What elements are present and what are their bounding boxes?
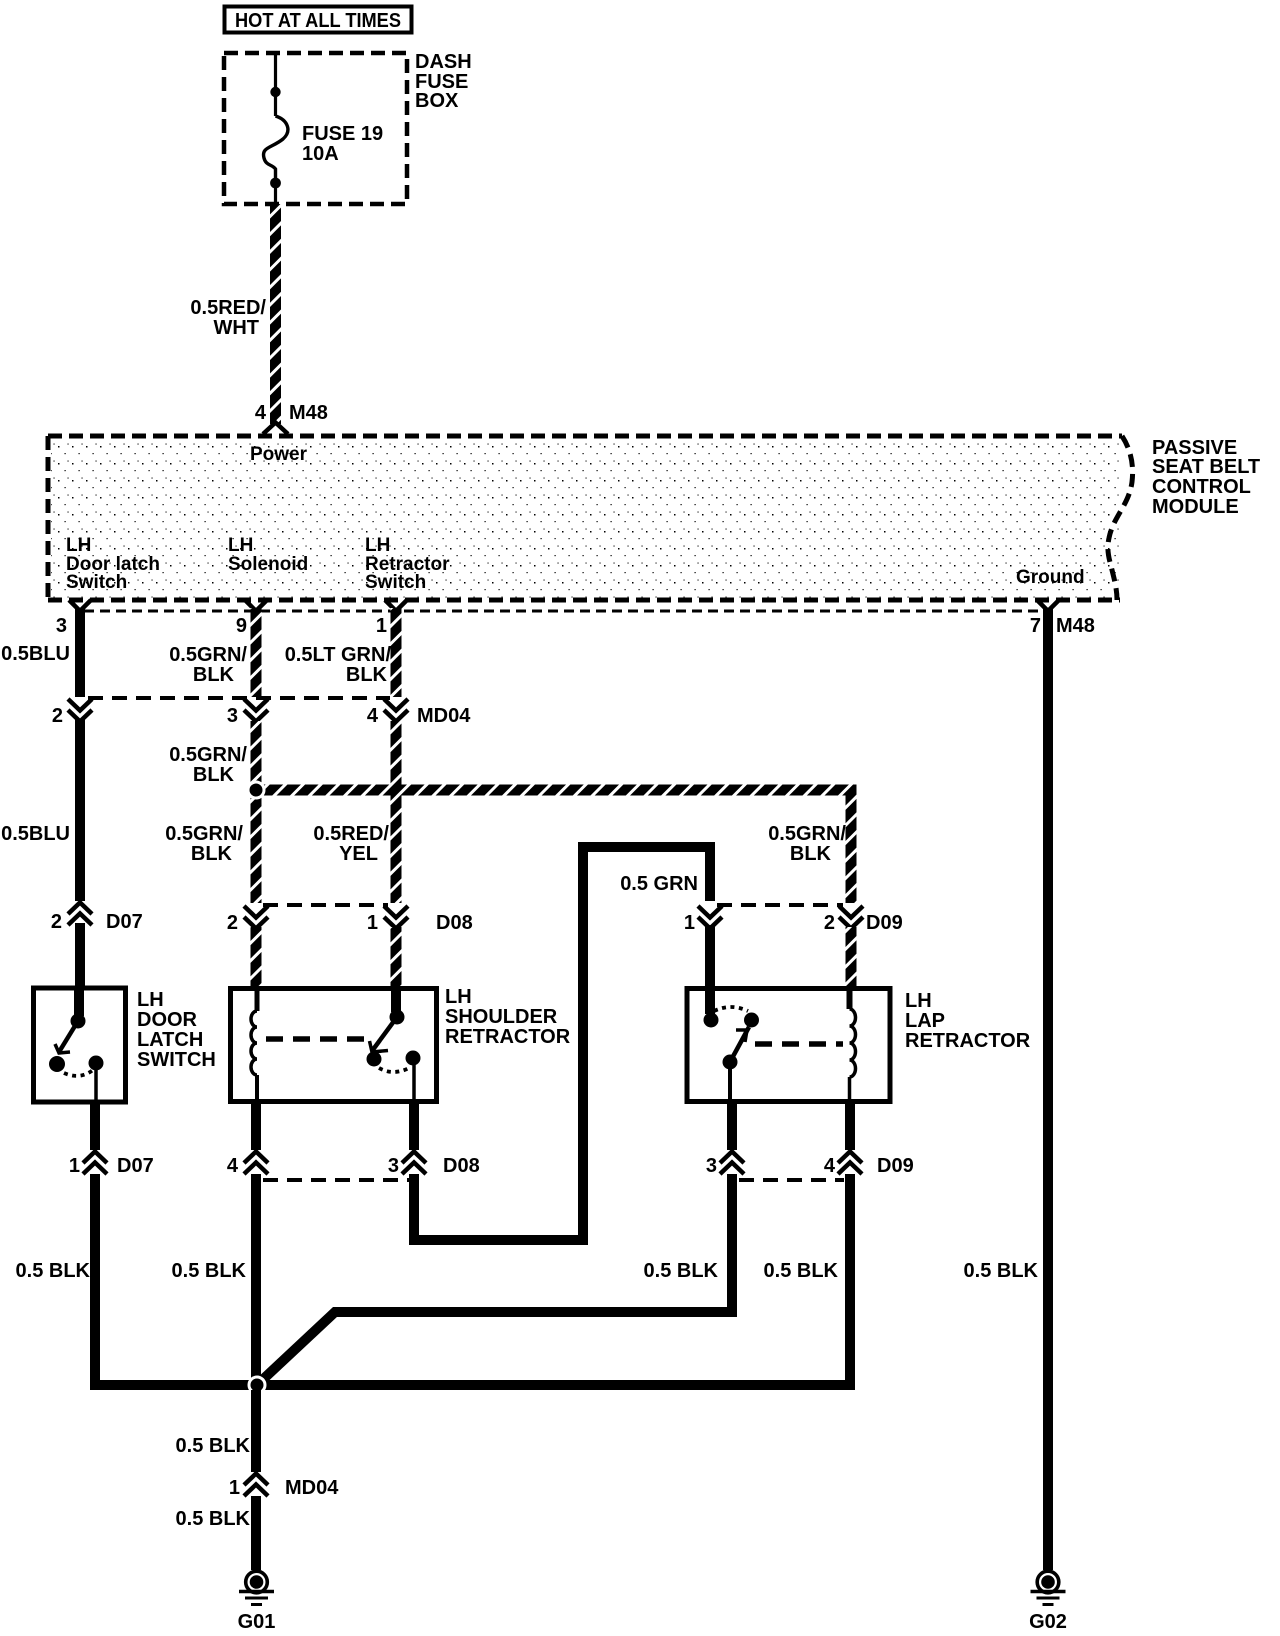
module pin name LH Retractor Switch [365, 535, 450, 593]
svg-text:LH: LH [228, 535, 253, 556]
svg-text:1: 1 [684, 912, 695, 934]
svg-text:MODULE: MODULE [1152, 496, 1239, 518]
module pin name LH Solenoid [228, 535, 308, 575]
svg-text:BLK: BLK [193, 664, 235, 686]
svg-text:M48: M48 [289, 402, 328, 424]
svg-text:LH: LH [905, 990, 932, 1012]
wire label 0.5GRN/BLK [169, 644, 247, 686]
svg-text:2: 2 [51, 911, 62, 933]
svg-text:D08: D08 [443, 1155, 480, 1177]
svg-text:9: 9 [236, 615, 247, 637]
svg-text:SHOULDER: SHOULDER [445, 1006, 558, 1028]
wire label 0.5GRN/BLK (right branch) [768, 823, 846, 865]
HOT AT ALL TIMES banner [225, 7, 412, 33]
svg-text:0.5LT GRN/: 0.5LT GRN/ [285, 644, 392, 666]
connector chevron module pin 1 [385, 600, 407, 611]
node dot below fuse [270, 178, 281, 189]
svg-text:4: 4 [367, 705, 379, 727]
connector chevron module pin 3 [69, 600, 91, 611]
connector D08 pin 3 chevrons (up) [402, 1152, 426, 1175]
wire 0.5 BLK MD04 to G01 [251, 1496, 261, 1570]
svg-text:0.5BLU: 0.5BLU [1, 643, 70, 665]
svg-text:Power: Power [250, 444, 308, 465]
connector D08 dashed line (lower) [263, 1178, 409, 1182]
ground G01 [239, 1571, 274, 1604]
svg-text:LATCH: LATCH [137, 1029, 203, 1051]
wire label 0.5RED/YEL [313, 823, 389, 865]
wire 0.5GRN/BLK D08 to shoulder retractor (hatched) [251, 927, 262, 987]
connector D07 pin 2 chevrons (up) [68, 903, 92, 926]
svg-text:0.5 GRN: 0.5 GRN [620, 873, 698, 895]
connector D07 pin 1 chevrons (up) [83, 1152, 107, 1175]
svg-text:D09: D09 [866, 912, 903, 934]
svg-text:SWITCH: SWITCH [137, 1049, 216, 1071]
svg-text:CONTROL: CONTROL [1152, 476, 1251, 498]
svg-text:DASH: DASH [415, 51, 472, 73]
wire 0.5BLU connector to D07 [75, 719, 85, 901]
svg-text:D09: D09 [877, 1155, 914, 1177]
svg-text:HOT AT ALL TIMES: HOT AT ALL TIMES [235, 10, 401, 32]
connector D08 pin 4 chevrons (up) [244, 1152, 268, 1175]
dash fuse box (dashed outline) [224, 53, 407, 204]
wire 0.5RED/YEL connector to D08 (hatched) [391, 721, 402, 903]
module PASSIVE SEAT BELT CONTROL MODULE (dashed box with wavy right edge) [48, 436, 1133, 600]
wire 0.5BLU module pin3 to connector [75, 608, 85, 697]
svg-text:MD04: MD04 [417, 705, 471, 727]
svg-text:Solenoid: Solenoid [228, 554, 308, 575]
value label FUSE 19 10A [302, 123, 383, 165]
connector D09 dashed line (lower) [739, 1178, 844, 1182]
module name label [1152, 437, 1260, 518]
svg-text:D07: D07 [106, 911, 143, 933]
svg-text:SEAT BELT: SEAT BELT [1152, 456, 1260, 478]
shoulder retractor label [445, 986, 571, 1048]
svg-text:3: 3 [388, 1155, 399, 1177]
connector D08 pin 2 chevrons [244, 906, 268, 929]
connector MD04 pin 1 chevrons (up) [244, 1474, 268, 1497]
wire 0.5 GRN shoulder to lap (S route) [414, 847, 710, 1240]
svg-text:M48: M48 [1056, 615, 1095, 637]
LH LAP RETRACTOR box [687, 989, 890, 1102]
connector chevron pin 4 M48 [263, 423, 288, 435]
wire 0.5GRN/BLK connector to D08 (hatched) [251, 721, 262, 903]
wire 0.5 BLK D09 pin3 to junction (with diagonal) [258, 1174, 732, 1384]
door latch switch label [137, 989, 216, 1071]
svg-text:BLK: BLK [346, 664, 388, 686]
shoulder retractor switch [367, 989, 421, 1100]
svg-text:BLK: BLK [193, 764, 235, 786]
connector D09 pin 1 chevrons [698, 906, 722, 929]
ground G02 [1031, 1571, 1066, 1604]
wire label 0.5GRN/BLK (lower) [165, 823, 243, 865]
svg-text:0.5 BLK: 0.5 BLK [16, 1260, 91, 1282]
wire label 0.5RED/WHT [190, 297, 266, 339]
svg-text:0.5RED/: 0.5RED/ [190, 297, 266, 319]
wire 0.5 BLK junction to MD04 [251, 1390, 261, 1472]
svg-text:4: 4 [255, 402, 267, 424]
svg-text:LH: LH [137, 989, 164, 1011]
svg-text:1: 1 [229, 1477, 240, 1499]
wire fuse feed (thin) [274, 53, 277, 116]
LH SHOULDER RETRACTOR box [231, 989, 437, 1102]
connector MD04 dashed line (row) [88, 696, 390, 700]
svg-text:4: 4 [824, 1155, 836, 1177]
svg-text:LH: LH [445, 986, 472, 1008]
svg-text:RETRACTOR: RETRACTOR [445, 1026, 571, 1048]
connector D08 pin 1 chevrons [384, 906, 408, 929]
node dot above fuse [270, 87, 280, 97]
wire 0.5 BLK ground bus (D07 + bus + D09 pin4) [95, 1174, 850, 1385]
svg-text:0.5RED/: 0.5RED/ [313, 823, 389, 845]
svg-text:1: 1 [376, 615, 387, 637]
svg-text:0.5 BLK: 0.5 BLK [764, 1260, 839, 1282]
lap retractor coil [850, 990, 856, 1100]
connector D08 dashed line (upper) [263, 903, 388, 907]
connector chevron module pin 9 [245, 600, 267, 611]
svg-text:1: 1 [367, 912, 378, 934]
connector MD04 pin 3 chevrons [244, 699, 268, 722]
svg-text:3: 3 [227, 705, 238, 727]
svg-text:MD04: MD04 [285, 1477, 339, 1499]
shoulder retractor internal dashed link [266, 1036, 364, 1042]
wire shoulder retractor to D08 pin4 [251, 1103, 261, 1150]
svg-text:D07: D07 [117, 1155, 154, 1177]
svg-text:0.5 BLK: 0.5 BLK [644, 1260, 719, 1282]
svg-text:RETRACTOR: RETRACTOR [905, 1030, 1031, 1052]
wire 0.5 BLK D08 pin4 to junction [251, 1174, 261, 1385]
svg-text:7: 7 [1030, 615, 1041, 637]
lap retractor switch [704, 990, 760, 1100]
door latch switch internals [49, 989, 104, 1100]
svg-text:0.5 BLK: 0.5 BLK [176, 1508, 251, 1530]
svg-text:LH: LH [365, 535, 390, 556]
svg-text:WHT: WHT [213, 317, 259, 339]
wire lap retractor to D09 pin4 [845, 1103, 855, 1150]
connector D09 dashed line (upper) [717, 903, 843, 907]
wire 0.5RED/WHT (hatched) fuse box to module [270, 204, 281, 424]
svg-text:Ground: Ground [1016, 567, 1085, 588]
wire shoulder retractor to D08 pin3 [409, 1103, 419, 1150]
junction node on 0.5GRN/BLK [248, 782, 264, 798]
junction node on ground bus [249, 1377, 265, 1393]
svg-text:1: 1 [69, 1155, 80, 1177]
fuse FUSE 19 10A [263, 116, 287, 178]
svg-text:0.5 BLK: 0.5 BLK [172, 1260, 247, 1282]
wire 0.5GRN/BLK module pin9 to connector (hatched) [251, 608, 262, 697]
connector M48 dashed line (bottom) [84, 610, 1042, 613]
svg-text:LAP: LAP [905, 1010, 945, 1032]
svg-text:3: 3 [56, 615, 67, 637]
svg-text:BLK: BLK [191, 843, 233, 865]
svg-text:BOX: BOX [415, 90, 459, 112]
lap retractor internal dashed link [755, 1041, 843, 1047]
svg-text:LH: LH [66, 535, 91, 556]
connector MD04 pin 2 chevrons [68, 699, 92, 722]
svg-text:0.5 BLK: 0.5 BLK [964, 1260, 1039, 1282]
svg-text:0.5GRN/: 0.5GRN/ [169, 644, 247, 666]
connector D09 pin 2 chevrons [839, 906, 863, 929]
svg-text:2: 2 [52, 705, 63, 727]
svg-text:0.5GRN/: 0.5GRN/ [165, 823, 243, 845]
wire 0.5GRN/BLK D09 to lap retractor coil (hatched) [846, 927, 857, 988]
svg-text:4: 4 [227, 1155, 239, 1177]
connector MD04 pin 4 chevrons [384, 699, 408, 722]
wire lap retractor to D09 pin3 [727, 1103, 737, 1150]
svg-text:Switch: Switch [66, 572, 127, 593]
svg-text:BLK: BLK [790, 843, 832, 865]
svg-text:G01: G01 [238, 1611, 276, 1633]
svg-text:2: 2 [227, 912, 238, 934]
svg-text:0.5BLU: 0.5BLU [1, 823, 70, 845]
connector D09 pin 3 chevrons (up) [720, 1152, 744, 1175]
connector D09 pin 4 chevrons (up) [838, 1152, 862, 1175]
svg-text:3: 3 [706, 1155, 717, 1177]
wire label 0.5LT GRN/BLK [285, 644, 392, 686]
label DASH FUSE BOX [415, 51, 472, 112]
svg-text:YEL: YEL [339, 843, 378, 865]
svg-text:0.5 BLK: 0.5 BLK [176, 1435, 251, 1457]
module pin name LH Door latch Switch [66, 535, 160, 593]
svg-text:G02: G02 [1029, 1611, 1067, 1633]
svg-text:10A: 10A [302, 143, 339, 165]
svg-text:FUSE 19: FUSE 19 [302, 123, 383, 145]
wire 0.5 BLK module pin7 to G02 [1043, 608, 1053, 1570]
svg-text:Switch: Switch [365, 572, 426, 593]
wire 0.5RED/YEL D08 to shoulder retractor (hatched) [391, 927, 402, 987]
connector chevron module pin 7 [1037, 600, 1059, 611]
svg-text:D08: D08 [436, 912, 473, 934]
svg-text:0.5GRN/: 0.5GRN/ [169, 744, 247, 766]
svg-text:2: 2 [824, 912, 835, 934]
LH DOOR LATCH SWITCH box [34, 988, 126, 1102]
wire 0.5LT GRN/BLK module pin1 to connector (hatched) [391, 608, 402, 697]
wire fuse to box edge (thin) [274, 183, 277, 204]
svg-text:DOOR: DOOR [137, 1009, 198, 1031]
wire 0.5BLU D07 to door latch switch [75, 923, 85, 987]
svg-text:0.5GRN/: 0.5GRN/ [768, 823, 846, 845]
shoulder retractor solenoid coil [251, 989, 257, 1100]
wire door latch to D07 pin1 [90, 1103, 100, 1150]
wire 0.5GRN/BLK branch to lap retractor (hatched, horizontal + down) [256, 785, 857, 904]
lap retractor label [905, 990, 1031, 1052]
wire 0.5 GRN D09 to lap retractor [705, 925, 715, 988]
wire label 0.5GRN/BLK (mid) [169, 744, 247, 786]
